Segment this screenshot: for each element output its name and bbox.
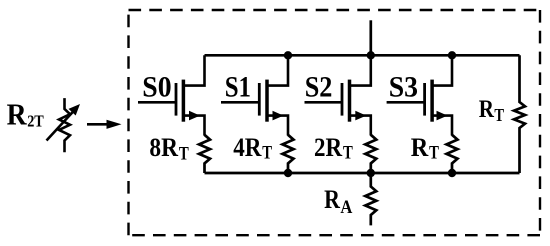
variable resistor R2T [47,98,81,152]
svg-text:R: R [411,132,429,162]
svg-text:2T: 2T [27,111,44,130]
S2 source arrow [355,111,366,121]
junction: bottom rail / 2RT and RA [367,169,375,177]
transistor S1 [221,55,288,135]
S3 gate bar [423,83,426,116]
RA zigzag body and bottom lead [365,173,376,225]
wire: top terminal stub [369,20,372,55]
wire: S3 drain to top rail [432,55,452,85]
svg-text:T: T [494,105,504,125]
junction: bottom rail / RT [448,169,456,177]
svg-text:R: R [7,98,28,132]
value label R2T [7,98,45,132]
svg-text:S3: S3 [389,70,418,103]
svg-text:T: T [262,143,272,164]
svg-text:R: R [479,96,495,123]
svg-text:A: A [340,197,352,218]
RT zigzag body [447,135,458,173]
wire: S2 source to 2RT [350,116,371,136]
wire: S3 source to RT [432,116,452,136]
S0 channel bar [182,80,186,122]
wire: S3 gate lead [387,101,425,104]
wire: bottom rail [205,172,520,175]
wire: S1 drain to top rail [267,55,288,85]
junction: top rail / S3 drain [448,51,456,59]
svg-text:S0: S0 [142,70,171,103]
S1 source arrow [273,111,284,121]
resistor 2RT [314,132,376,173]
4RT zigzag body [283,135,294,173]
wire: S0 drain to top rail [183,55,204,85]
input arrow [87,120,122,129]
svg-text:R: R [324,184,341,214]
svg-text:T: T [429,143,439,164]
S3 source arrow [437,111,448,121]
dashed enclosure box [129,10,541,235]
2RT zigzag body [365,135,376,173]
resistor 8RT [149,132,210,173]
resistor RA [324,173,376,225]
svg-text:T: T [179,143,189,164]
junction: top rail / S2 drain and stub [367,51,375,59]
junction: bottom rail / 4RT [284,169,292,177]
wire: S1 source to 4RT [267,116,288,136]
svg-text:8R: 8R [149,132,178,162]
wire: S0 source to 8RT [183,116,204,136]
resistor 4RT [233,132,293,173]
wire: S1 gate lead [221,101,259,104]
junction: top rail / S1 drain [284,51,292,59]
resistor RT (termination, right branch) [479,55,525,173]
S2 channel bar [348,80,352,122]
svg-text:S2: S2 [305,70,333,103]
transistor S2 [305,55,371,135]
S0 source arrow [189,111,200,121]
S1 gate bar [258,83,261,116]
transistor S0 [138,55,205,135]
svg-text:S1: S1 [225,70,251,103]
svg-text:2R: 2R [314,132,343,162]
transistor S3 [387,55,452,135]
svg-text:4R: 4R [233,132,262,162]
S1 channel bar [265,80,269,122]
svg-text:T: T [343,143,353,164]
S2 gate bar [341,83,344,116]
wire: S2 drain to top rail [350,55,371,85]
resistor RT (LSB cell) [411,132,458,173]
wire: top rail [205,54,520,57]
wire: S0 gate lead [138,101,176,104]
wire and RT zigzag body, right branch [514,55,525,173]
wire: S2 gate lead [305,101,343,104]
8RT zigzag body [199,135,210,173]
S3 channel bar [430,80,434,122]
S0 gate bar [175,83,178,116]
